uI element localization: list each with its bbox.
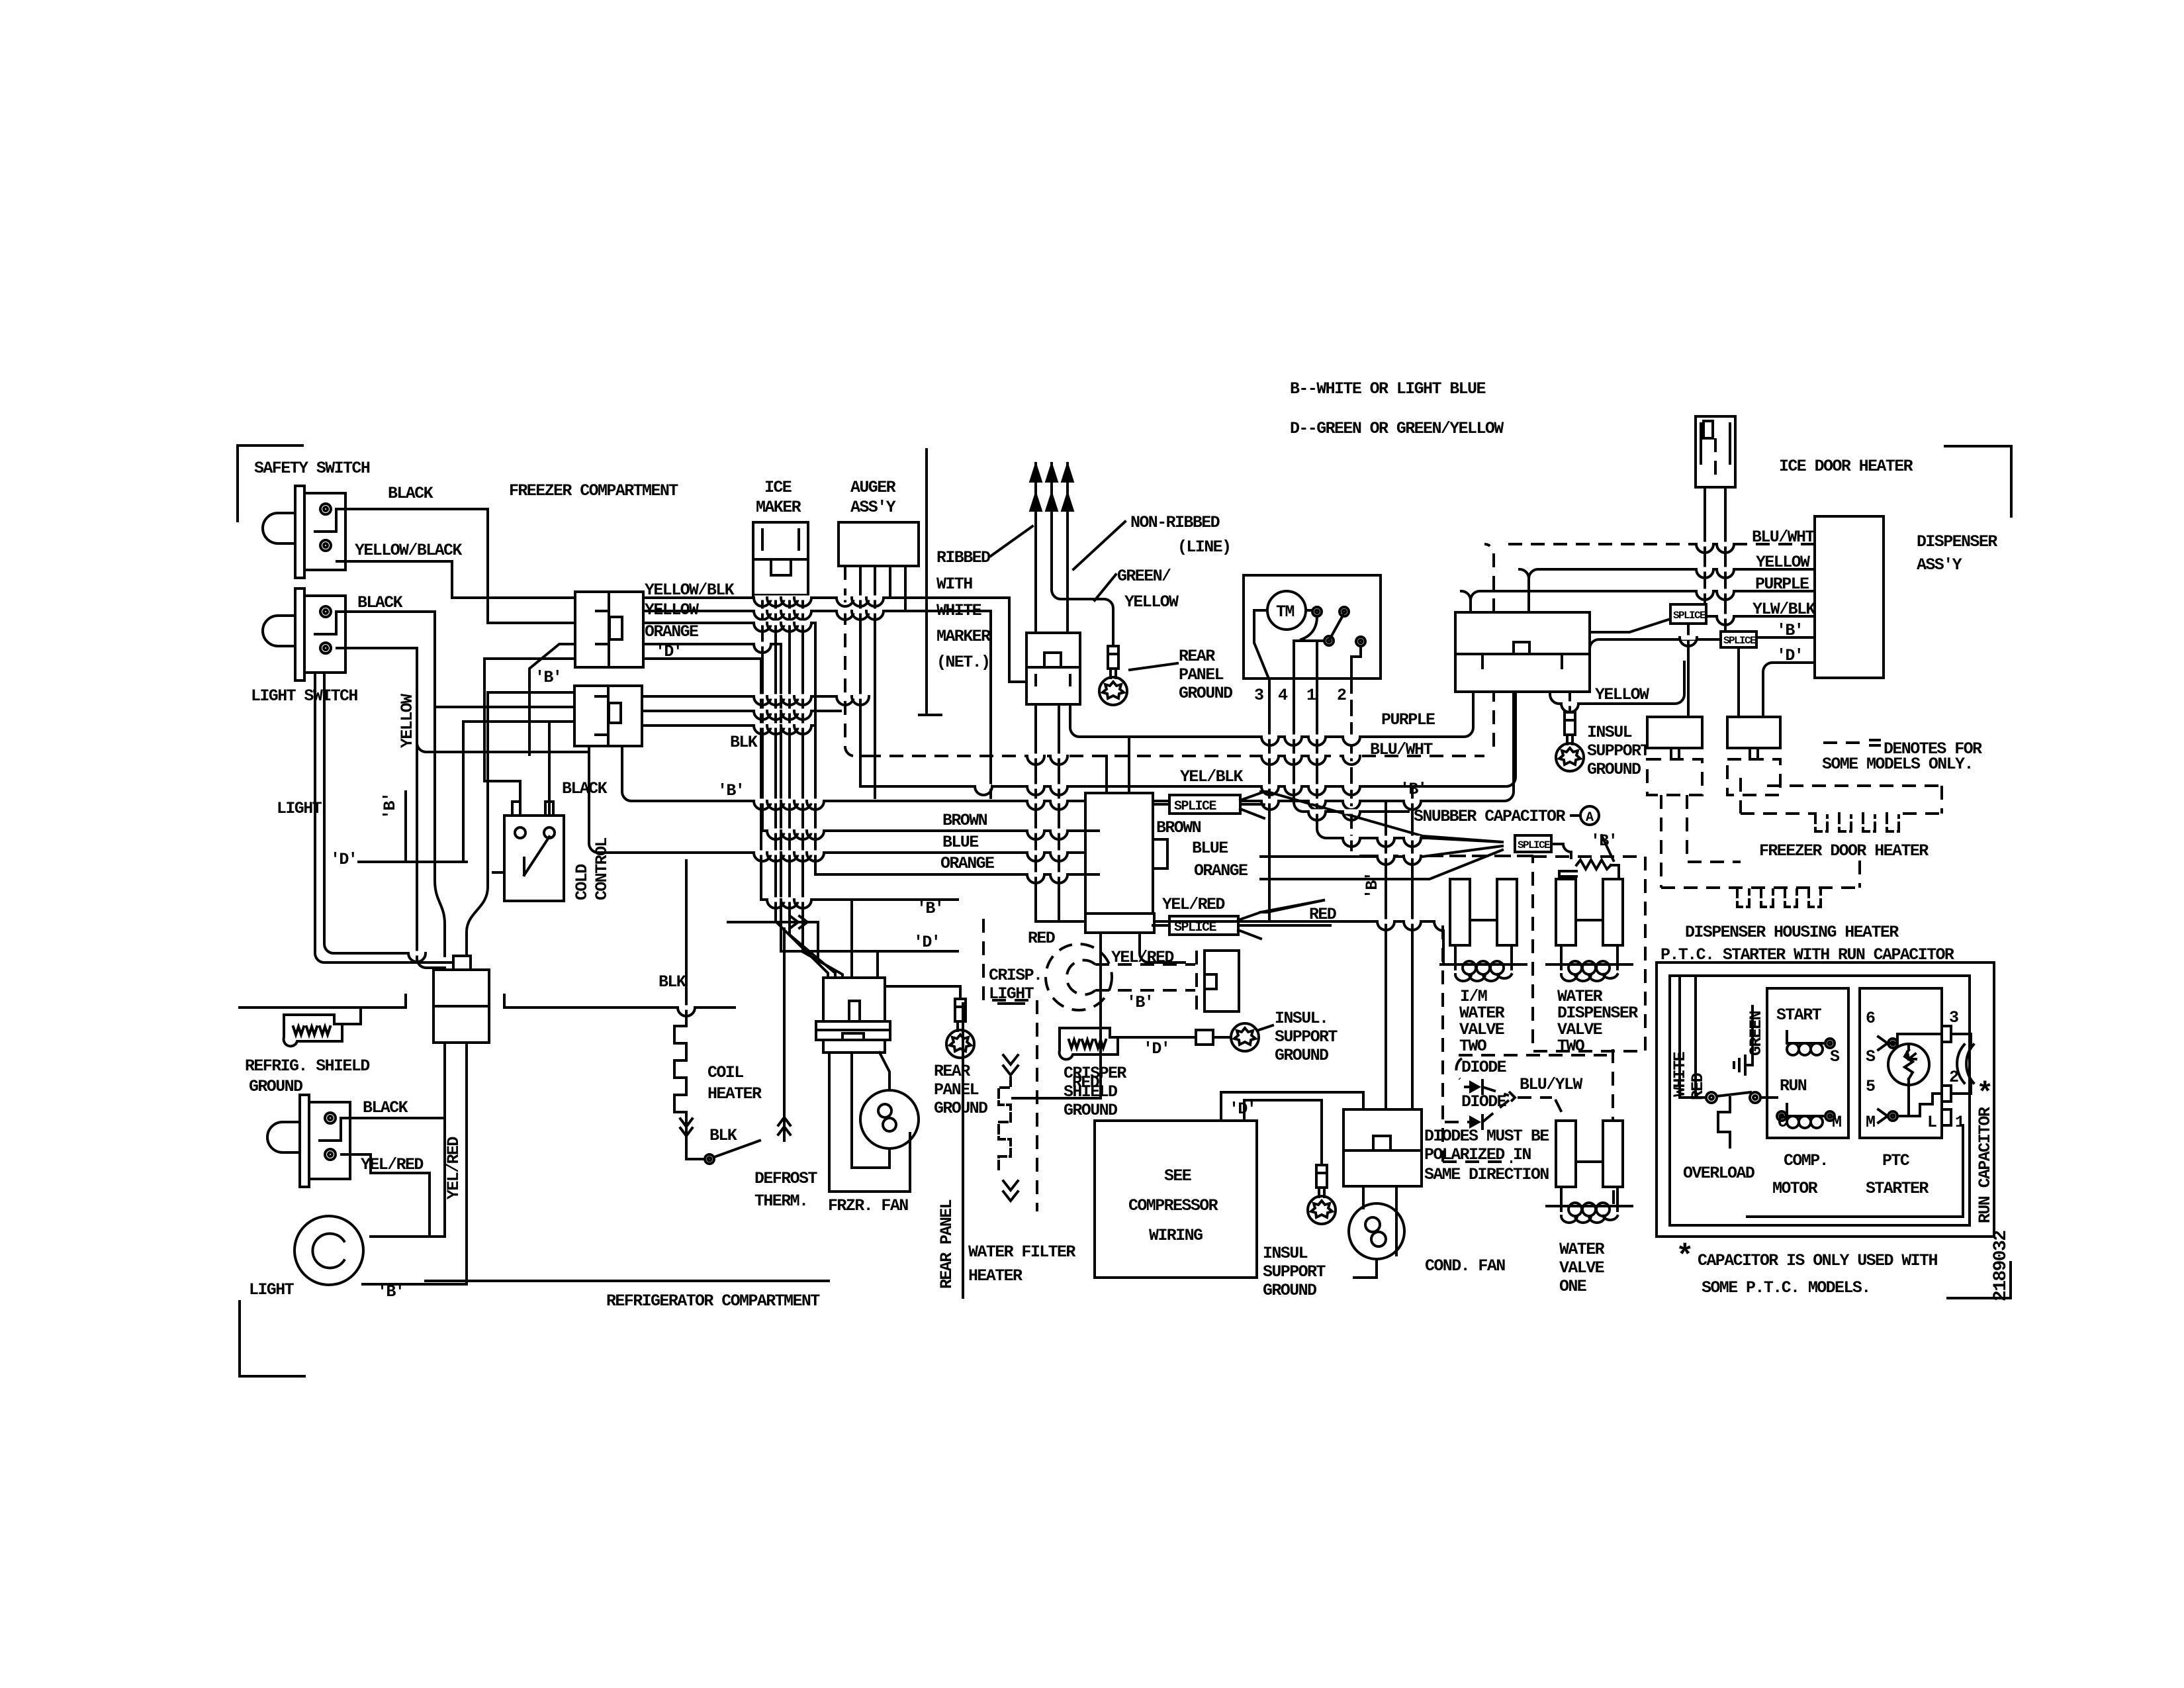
dashed I/M valve line: [1443, 925, 1512, 1162]
svg-text:'D': 'D': [1776, 646, 1803, 665]
svg-text:INSUL.: INSUL.: [1275, 1009, 1328, 1028]
svg-text:2189032: 2189032: [1991, 1231, 2011, 1301]
cold control box: [504, 816, 564, 901]
dashed box valve two: [1533, 857, 1645, 1051]
svg-text:GROUND: GROUND: [1263, 1281, 1317, 1300]
splice S4 down wire: [1687, 624, 1690, 717]
svg-text:'B': 'B': [535, 668, 561, 687]
separator vertical line: [919, 449, 941, 715]
wires into cold control top: [520, 722, 549, 816]
light bulb bottom: [295, 1216, 363, 1285]
ice maker box: [753, 522, 808, 595]
svg-text:TM: TM: [1276, 602, 1294, 622]
svg-text:PANEL: PANEL: [934, 1080, 979, 1100]
I/M water valve: [1441, 879, 1526, 981]
wire hop bumps: [678, 544, 1734, 1016]
svg-text:MAKER: MAKER: [756, 498, 801, 517]
svg-text:BLU/YLW: BLU/YLW: [1520, 1075, 1582, 1094]
svg-text:RED: RED: [1309, 905, 1337, 924]
svg-text:RUN: RUN: [1780, 1076, 1807, 1096]
wire BLUE row right: [1261, 846, 1502, 857]
svg-text:GROUND: GROUND: [1179, 684, 1233, 703]
timer pins below: [1269, 679, 1502, 920]
wire row B left: [406, 692, 574, 862]
pointer non-ribbed: [1073, 522, 1125, 569]
svg-text:CONTROL: CONTROL: [592, 838, 612, 900]
wire row 1136: [417, 743, 586, 752]
wire YLW/BLK dispenser: [1590, 616, 1815, 632]
svg-text:YLW/BLK: YLW/BLK: [1752, 600, 1815, 619]
svg-text:TWO: TWO: [1557, 1037, 1585, 1056]
svg-text:GROUND: GROUND: [249, 1077, 303, 1096]
freezer door connector L: [1647, 717, 1702, 795]
svg-text:GROUND: GROUND: [934, 1099, 988, 1118]
wire rows right of J2: [643, 696, 867, 726]
svg-text:RIBBED: RIBBED: [936, 548, 991, 567]
svg-text:START: START: [1776, 1006, 1822, 1025]
wire ORANGE row right: [1261, 850, 1502, 879]
wire YELLOW from light switch bottom: [337, 648, 445, 968]
svg-text:YELLOW: YELLOW: [398, 694, 417, 748]
svg-text:SOME MODELS ONLY.: SOME MODELS ONLY.: [1822, 755, 1973, 774]
water filter heater dashed element: [999, 1078, 1011, 1169]
svg-text:'B': 'B': [1126, 993, 1153, 1012]
svg-text:COND. FAN: COND. FAN: [1425, 1256, 1505, 1276]
svg-text:DISPENSER: DISPENSER: [1917, 532, 1997, 551]
wire BLU/WHT dispenser: [1503, 543, 1815, 545]
rear panel line: [963, 1004, 1024, 1297]
svg-text:SUPPORT: SUPPORT: [1587, 741, 1650, 761]
svg-text:6: 6: [1866, 1009, 1875, 1028]
svg-text:*: *: [1976, 1078, 1993, 1111]
wires below connector K1: [363, 1043, 467, 1284]
svg-text:WITH: WITH: [936, 575, 972, 594]
crisper shield ground: [1060, 1028, 1118, 1059]
wire row yellow right: [643, 566, 991, 798]
svg-text:FREEZER DOOR HEATER: FREEZER DOOR HEATER: [1759, 841, 1929, 861]
auger box: [839, 522, 919, 566]
svg-text:WHITE: WHITE: [936, 601, 981, 620]
snubber capacitor: [1551, 844, 1571, 858]
dispenser assy box: [1815, 516, 1884, 678]
connector C1 center: [1085, 793, 1167, 933]
svg-text:POLARIZED IN: POLARIZED IN: [1424, 1145, 1531, 1164]
comp motor box: [1767, 988, 1848, 1138]
svg-text:ASS'Y: ASS'Y: [1917, 555, 1962, 575]
svg-text:INSUL: INSUL: [1587, 723, 1632, 742]
pointer ribbed: [991, 526, 1032, 556]
svg-text:SUPPORT: SUPPORT: [1275, 1027, 1338, 1047]
svg-text:SPLICE: SPLICE: [1723, 635, 1756, 647]
legend DENOTES: [1823, 741, 1866, 744]
freezer connector J1: [575, 592, 643, 667]
svg-text:ONE: ONE: [1559, 1277, 1586, 1296]
svg-text:*: *: [1676, 1240, 1694, 1274]
svg-text:BROWN: BROWN: [1156, 818, 1201, 837]
svg-text:REFRIGERATOR COMPARTMENT: REFRIGERATOR COMPARTMENT: [606, 1291, 820, 1311]
timer internal wires: [1254, 610, 1361, 679]
svg-text:WATER FILTER: WATER FILTER: [968, 1243, 1075, 1262]
svg-text:(NET.): (NET.): [936, 653, 989, 672]
svg-text:'D': 'D': [1143, 1039, 1169, 1058]
svg-text:A: A: [1586, 810, 1594, 825]
C1 pins below: [1101, 933, 1185, 1098]
refrig shield ground: [284, 1015, 342, 1046]
svg-text:GROUND: GROUND: [1064, 1101, 1118, 1120]
svg-text:BLUE: BLUE: [942, 833, 978, 852]
svg-text:REAR: REAR: [1179, 647, 1215, 666]
svg-text:STARTER: STARTER: [1866, 1179, 1929, 1198]
crisper connector: [1197, 951, 1239, 1011]
svg-text:MOTOR: MOTOR: [1772, 1179, 1818, 1198]
svg-text:SAFETY SWITCH: SAFETY SWITCH: [254, 459, 370, 478]
svg-text:BLACK: BLACK: [388, 484, 433, 503]
rear panel ground G2: [885, 986, 960, 999]
wire row D right: [643, 644, 781, 951]
svg-text:COIL: COIL: [707, 1063, 743, 1082]
svg-text:MARKER: MARKER: [936, 627, 991, 646]
svg-text:BLACK: BLACK: [562, 779, 608, 798]
dashed crisp box: [983, 919, 1037, 1211]
connector K1 on divider: [433, 956, 489, 1043]
freezer fan connector: [816, 978, 890, 1053]
svg-text:YEL/RED: YEL/RED: [1111, 948, 1174, 967]
svg-text:SUPPORT: SUPPORT: [1263, 1262, 1326, 1282]
wires B D into fan connector: [761, 900, 958, 978]
wire row B right: [643, 659, 761, 900]
svg-text:3: 3: [1254, 686, 1263, 705]
svg-text:PTC: PTC: [1882, 1151, 1910, 1170]
svg-text:YEL/BLK: YEL/BLK: [1180, 767, 1243, 786]
svg-text:YELLOW/BLACK: YELLOW/BLACK: [355, 541, 462, 560]
wire D dispenser: [1763, 663, 1815, 717]
svg-text:M: M: [1832, 1113, 1841, 1132]
wire YELLOW/BLACK from safety switch: [337, 561, 575, 598]
svg-text:INSUL: INSUL: [1263, 1244, 1308, 1263]
svg-text:S: S: [1866, 1047, 1876, 1066]
freezer door connector R: [1727, 717, 1780, 795]
defrost thermostat: [705, 1154, 714, 1164]
svg-text:CRISP.: CRISP.: [989, 966, 1042, 985]
svg-text:'B': 'B': [1590, 831, 1617, 851]
splice S4: [1670, 604, 1706, 624]
svg-text:YEL/RED: YEL/RED: [444, 1137, 463, 1199]
svg-text:SPLICE: SPLICE: [1673, 610, 1706, 622]
wires above connector K1: [435, 692, 488, 956]
svg-text:'B': 'B': [381, 793, 400, 820]
svg-text:GREEN/: GREEN/: [1117, 567, 1171, 586]
svg-text:YELLOW: YELLOW: [1124, 592, 1179, 612]
connector J3 line cord: [1026, 633, 1080, 704]
svg-text:3: 3: [1949, 1008, 1958, 1027]
wire PURPLE dispenser: [1471, 591, 1815, 600]
svg-text:SPLICE: SPLICE: [1518, 839, 1550, 851]
svg-text:4: 4: [1278, 686, 1288, 705]
wire BLACK from safety switch: [337, 509, 575, 623]
svg-text:DISPENSER HOUSING HEATER: DISPENSER HOUSING HEATER: [1685, 923, 1899, 942]
wire YELLOW dispenser: [1529, 569, 1815, 579]
C2 top pins: [1461, 569, 1529, 612]
svg-text:AUGER: AUGER: [850, 478, 896, 497]
svg-text:BLK: BLK: [659, 972, 686, 992]
wire black light switch 2: [341, 1117, 445, 1119]
wire BROWN row left: [762, 829, 1085, 832]
svg-text:RED: RED: [1072, 1073, 1100, 1092]
svg-text:BROWN: BROWN: [942, 811, 987, 830]
wire row D: [359, 861, 467, 863]
coil heater element: [674, 1018, 686, 1155]
svg-text:BLU/WHT: BLU/WHT: [1752, 528, 1815, 547]
svg-text:5: 5: [1866, 1077, 1875, 1096]
PTC outer box: [1657, 962, 1994, 1237]
svg-text:ICE: ICE: [764, 478, 792, 497]
freezer connector J2: [574, 686, 642, 746]
wire BROWN row right: [1261, 792, 1502, 842]
svg-text:YELLOW: YELLOW: [1756, 553, 1810, 572]
svg-text:REAR PANEL: REAR PANEL: [937, 1199, 956, 1289]
svg-text:ORANGE: ORANGE: [645, 622, 698, 641]
wire YELLOW from C2: [1550, 662, 1684, 704]
svg-text:DIODE: DIODE: [1461, 1092, 1506, 1111]
svg-text:1: 1: [1306, 686, 1316, 705]
svg-text:'B': 'B': [717, 781, 744, 800]
freezer door heater element: [1815, 814, 1899, 831]
svg-text:D--GREEN OR GREEN/YELLOW: D--GREEN OR GREEN/YELLOW: [1290, 419, 1504, 438]
wire light pair: [315, 673, 463, 962]
corner bracket top-left: [238, 445, 302, 521]
svg-text:B--WHITE OR LIGHT BLUE: B--WHITE OR LIGHT BLUE: [1290, 379, 1485, 399]
crisper light dashed circle: [1046, 944, 1112, 1010]
insul support ground G4: [1308, 1165, 1336, 1224]
svg-text:SNUBBER CAPACITOR: SNUBBER CAPACITOR: [1414, 807, 1565, 826]
center connector C2: [1455, 612, 1590, 692]
svg-text:BLUE: BLUE: [1192, 839, 1228, 858]
freezer fan motor: [860, 1090, 919, 1149]
svg-text:'B': 'B': [1776, 621, 1803, 640]
svg-text:BLK: BLK: [730, 733, 758, 752]
svg-text:COLD: COLD: [572, 864, 592, 900]
timer terminals: [1312, 607, 1322, 616]
svg-text:LIGHT: LIGHT: [277, 799, 322, 818]
svg-text:ORANGE: ORANGE: [1194, 861, 1248, 880]
svg-text:THERM.: THERM.: [754, 1192, 807, 1211]
power line 2: [1052, 463, 1113, 646]
svg-text:HEATER: HEATER: [707, 1084, 762, 1103]
C1 pins above: [1107, 737, 1129, 793]
pointer green/yellow: [1095, 575, 1116, 600]
svg-text:SEE: SEE: [1164, 1166, 1191, 1186]
svg-text:RUN CAPACITOR: RUN CAPACITOR: [1976, 1107, 1995, 1223]
water dispenser valve two: [1547, 879, 1632, 981]
svg-text:BLU/WHT: BLU/WHT: [1370, 740, 1433, 759]
green ground symbol: [1734, 1056, 1745, 1074]
svg-text:ORANGE: ORANGE: [940, 854, 994, 873]
wire D power from J3: [1058, 704, 1060, 921]
svg-text:SAME DIRECTION: SAME DIRECTION: [1424, 1165, 1549, 1184]
wire BLACK light switch 1: [337, 612, 574, 707]
svg-text:YELLOW: YELLOW: [1595, 685, 1649, 704]
svg-text:REFRIG. SHIELD: REFRIG. SHIELD: [245, 1056, 370, 1076]
svg-text:LIGHT: LIGHT: [249, 1280, 295, 1299]
wires into compressor: [1013, 1092, 1363, 1165]
diode circuit: [1459, 1054, 1607, 1056]
rear panel ground G1: [1099, 646, 1127, 705]
svg-text:WATER: WATER: [1559, 1240, 1605, 1259]
svg-text:DIODE: DIODE: [1461, 1058, 1506, 1077]
run capacitor: [1957, 1045, 1974, 1083]
svg-text:BLACK: BLACK: [363, 1098, 408, 1117]
insul support ground G3: [1569, 692, 1571, 712]
svg-text:NON-RIBBED: NON-RIBBED: [1130, 513, 1220, 532]
wire BLU/WHT dashed row: [867, 692, 1494, 756]
svg-text:COMPRESSOR: COMPRESSOR: [1128, 1196, 1218, 1215]
splice S1 (upper): [1169, 795, 1240, 814]
svg-text:RED: RED: [1028, 929, 1056, 948]
wire row yellow/blk right: [643, 566, 1026, 682]
svg-text:YEL/RED: YEL/RED: [1162, 895, 1225, 914]
ice maker wires down: [762, 595, 842, 978]
svg-text:M: M: [1866, 1113, 1875, 1132]
overload: [1706, 1092, 1717, 1103]
svg-text:2: 2: [1337, 686, 1346, 705]
freezer door heater dashed circuit: [1661, 778, 1942, 888]
splice S2 (lower): [1169, 916, 1238, 935]
svg-text:'B': 'B': [1363, 872, 1382, 899]
power line 3 green/yellow: [1066, 463, 1069, 633]
compressor box: [1095, 1121, 1257, 1278]
corner bracket right: [1945, 446, 2011, 516]
svg-text:'D': 'D': [913, 933, 940, 952]
svg-text:SOME P.T.C. MODELS.: SOME P.T.C. MODELS.: [1702, 1278, 1870, 1297]
dashed wire valve one: [1613, 1049, 1614, 1211]
svg-text:TWO: TWO: [1459, 1037, 1487, 1056]
svg-text:S: S: [1830, 1047, 1840, 1066]
svg-text:OVERLOAD: OVERLOAD: [1683, 1164, 1755, 1183]
svg-text:HEATER: HEATER: [968, 1266, 1023, 1286]
auger wires down: [845, 566, 867, 756]
svg-text:L: L: [1927, 1113, 1936, 1132]
light switch S2: [263, 588, 345, 680]
svg-text:SPLICE: SPLICE: [1174, 799, 1217, 814]
svg-text:REAR: REAR: [934, 1062, 970, 1081]
svg-text:GREEN: GREEN: [1747, 1011, 1766, 1056]
svg-text:CAPACITOR IS ONLY USED WITH: CAPACITOR IS ONLY USED WITH: [1698, 1251, 1937, 1270]
svg-text:ICE DOOR HEATER: ICE DOOR HEATER: [1779, 457, 1913, 476]
splice S3 (center): [1515, 835, 1551, 852]
dispenser housing heater dashed: [1661, 861, 1860, 888]
svg-text:PANEL: PANEL: [1179, 665, 1224, 684]
svg-text:GROUND: GROUND: [1587, 760, 1641, 779]
wire ORANGE row left: [815, 873, 1085, 876]
ice door heater connector: [1696, 416, 1735, 487]
defrost timer box TM: [1244, 575, 1381, 679]
wire row orange right: [643, 623, 815, 874]
svg-text:BLK: BLK: [709, 1126, 737, 1145]
wire YEL/RED right: [1261, 900, 1324, 912]
coil heater feed BLK: [685, 861, 688, 1018]
svg-text:PURPLE: PURPLE: [1381, 710, 1435, 729]
svg-text:WIRING: WIRING: [1149, 1226, 1203, 1245]
svg-text:BLACK: BLACK: [357, 593, 403, 612]
wire row connector1: [484, 644, 575, 781]
wire B row: [622, 692, 1514, 801]
wire B dispenser: [1590, 637, 1815, 649]
svg-text:DEFROST: DEFROST: [754, 1169, 817, 1188]
water valve one: [1547, 1121, 1632, 1223]
svg-text:'D': 'D': [330, 850, 357, 869]
B verticals to cond fan: [1386, 786, 1412, 1109]
defrost line arrows: [778, 1117, 790, 1135]
corner bracket bottom-left: [240, 1301, 304, 1376]
corner bracket bottom right: [1948, 1262, 2011, 1298]
svg-text:FREEZER COMPARTMENT: FREEZER COMPARTMENT: [509, 481, 678, 500]
ptc disc: [1888, 1044, 1929, 1085]
wire RED row: [1036, 704, 1443, 964]
wire YEL/BLK row: [860, 692, 1516, 786]
wire PURPLE row: [1070, 692, 1473, 737]
svg-text:ASS'Y: ASS'Y: [850, 498, 896, 517]
divider line left: [240, 995, 406, 1008]
svg-text:FRZR. FAN: FRZR. FAN: [828, 1196, 908, 1215]
ptc starter box: [1860, 988, 1942, 1138]
light switch S3: [267, 1095, 350, 1187]
safety switch S1: [263, 486, 345, 578]
svg-text:PURPLE: PURPLE: [1755, 575, 1809, 594]
wire yel/red light switch 2: [341, 1154, 430, 1237]
svg-text:VALVE: VALVE: [1559, 1258, 1604, 1278]
svg-text:'D': 'D': [1229, 1100, 1255, 1119]
cond fan motor: [1349, 1203, 1404, 1259]
divider line center: [426, 1280, 829, 1282]
svg-text:COMP.: COMP.: [1784, 1151, 1828, 1170]
wire defrost to fan: [728, 922, 818, 961]
splice S5: [1721, 632, 1756, 647]
svg-text:'B': 'B': [917, 899, 943, 918]
power line 1: [1034, 463, 1037, 633]
svg-text:'B': 'B': [377, 1282, 404, 1301]
pointer rear panel ground: [1130, 663, 1177, 670]
svg-text:(LINE): (LINE): [1177, 538, 1230, 557]
svg-text:DIODES MUST BE: DIODES MUST BE: [1424, 1127, 1549, 1146]
svg-text:RED: RED: [1688, 1072, 1707, 1100]
cond fan connector: [1343, 1109, 1422, 1186]
svg-text:LIGHT SWITCH: LIGHT SWITCH: [251, 686, 357, 706]
dispenser housing heater element: [1737, 888, 1821, 907]
svg-text:GROUND: GROUND: [1275, 1046, 1329, 1065]
wire BLUE row left: [598, 851, 1085, 854]
